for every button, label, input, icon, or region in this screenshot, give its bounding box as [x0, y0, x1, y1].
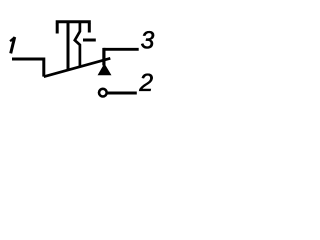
NC fixed contact triangle — [99, 65, 111, 75]
wire pin 2 — [108, 92, 137, 95]
actuator left leg — [56, 23, 59, 34]
NO contact terminal circle — [99, 89, 107, 97]
wire pin 1 — [12, 58, 44, 61]
pin label 1 — [10, 37, 15, 53]
latch pawl dash — [83, 39, 96, 42]
actuator right leg — [88, 23, 91, 33]
pin label 3 — [141, 31, 154, 48]
wire pin 3 — [103, 48, 138, 51]
plunger stem — [67, 23, 70, 70]
wire drop from pin 3 corner — [102, 48, 105, 66]
latch rod with detent notch — [75, 23, 80, 67]
actuator top bar — [56, 20, 91, 23]
switch lever (movable contact) — [44, 58, 111, 76]
wire step down — [42, 58, 45, 77]
pin label 2 — [139, 74, 153, 91]
